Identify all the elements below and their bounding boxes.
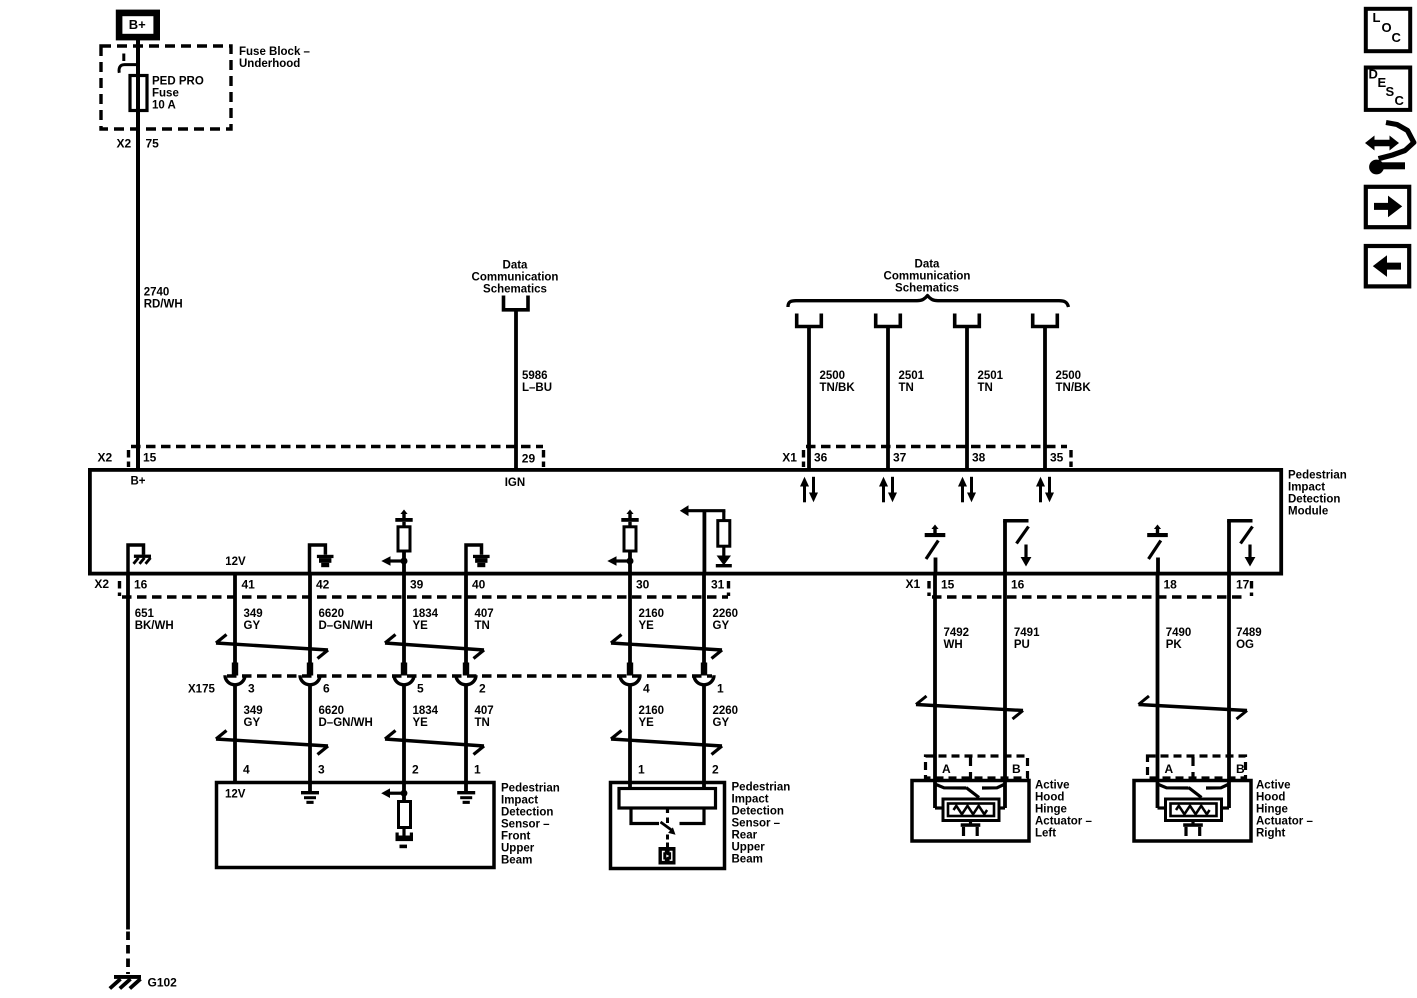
svg-text:Fuse: Fuse (152, 88, 179, 100)
svg-text:Hood: Hood (1256, 792, 1285, 804)
svg-text:WH: WH (944, 639, 963, 651)
svg-text:1834: 1834 (413, 608, 439, 620)
module internal bidirectional serial data arrows (803, 485, 806, 502)
svg-text:37: 37 (893, 451, 907, 465)
svg-text:35: 35 (1050, 451, 1064, 465)
svg-text:7490: 7490 (1166, 627, 1192, 639)
svg-text:42: 42 (316, 578, 330, 592)
svg-text:B: B (1012, 762, 1021, 776)
front sensor internal sense resistor with signal arrow (pin 2) (402, 781, 406, 802)
svg-text:Fuse Block –: Fuse Block – (239, 46, 311, 58)
svg-text:5: 5 (417, 682, 424, 696)
svg-text:Schematics: Schematics (895, 283, 959, 295)
wire 7492 WH: module to actuator left terminal A (933, 574, 937, 782)
svg-text:6620: 6620 (319, 608, 345, 620)
svg-text:Module: Module (1288, 506, 1328, 518)
actuator right squib shorting bar (1158, 780, 1230, 808)
module internal bidirectional serial data arrows (882, 485, 885, 502)
module internal ground (pin 40) (466, 545, 482, 574)
ground G102 chassis ground symbol (114, 975, 141, 979)
rear sensor internal pressure sensor element (659, 847, 676, 865)
actuator left connector dashed box with terminals A and B (926, 756, 1028, 778)
svg-text:Pedestrian: Pedestrian (732, 782, 791, 794)
module internal pull-up resistor with supply and signal arrow (pin 30) (626, 510, 633, 515)
twisted pair symbol (7492/7491) (916, 705, 1023, 711)
twisted pair symbol (1834/407 upper) (385, 643, 484, 650)
module internal ground (pin 42) (310, 545, 326, 574)
wire 7489 OG: module to actuator right terminal B (1227, 574, 1231, 782)
svg-text:Data: Data (915, 259, 941, 271)
wire 7491 PU: module to actuator left terminal B (1003, 574, 1007, 782)
twisted pair symbol (1834/407 lower) (385, 739, 484, 746)
svg-text:Active: Active (1035, 780, 1070, 792)
svg-text:17: 17 (1236, 578, 1250, 592)
wire 651 BK/WH: module pin 16 to ground G102 (126, 574, 130, 930)
svg-text:2: 2 (412, 763, 419, 777)
sidebar icon next arrow (1366, 187, 1409, 227)
svg-text:Data: Data (503, 260, 529, 272)
wire 6620 D–GN/WH: X175 to front sensor pin 3 (308, 685, 312, 783)
Pedestrian Impact Detection Sensor - Rear Upper Beam box (611, 783, 725, 869)
svg-text:PED PRO: PED PRO (152, 76, 204, 88)
sidebar icon LOC (1366, 9, 1410, 51)
wire 2160 YE: module to in-line connector pin 4 (628, 574, 632, 664)
svg-text:10 A: 10 A (152, 100, 176, 112)
svg-text:TN: TN (899, 382, 914, 394)
svg-text:2260: 2260 (713, 705, 739, 717)
actuator left igniter squib resistor (935, 806, 944, 809)
svg-text:L: L (1373, 10, 1381, 25)
svg-text:Upper: Upper (732, 842, 766, 854)
svg-text:TN: TN (475, 717, 490, 729)
Pedestrian Impact Detection Module box (90, 470, 1281, 574)
svg-text:7491: 7491 (1014, 627, 1040, 639)
wire 6620 D–GN/WH: module to X175 pin 6 (308, 574, 312, 664)
svg-text:GY: GY (244, 717, 261, 729)
svg-text:Detection: Detection (1288, 494, 1340, 506)
Active Hood Hinge Actuator - Left box (912, 781, 1029, 842)
front sensor internal ground (pin 1) (464, 781, 468, 791)
in-line connector terminal pin 1 (701, 663, 707, 676)
svg-text:RD/WH: RD/WH (144, 299, 183, 311)
svg-text:2: 2 (712, 763, 719, 777)
twisted pair symbol (349/6620 lower) (216, 739, 328, 746)
wire 407 TN: module to X175 pin 2 (464, 574, 468, 664)
module internal deployment high-side switch (pin X1-15) (931, 525, 938, 530)
svg-text:C: C (1395, 93, 1405, 108)
svg-text:7492: 7492 (944, 627, 970, 639)
off-page connector bracket (serial data wire 2500) (797, 314, 822, 327)
svg-text:Front: Front (501, 831, 531, 843)
svg-text:Detection: Detection (732, 806, 784, 818)
svg-text:TN: TN (475, 620, 490, 632)
rear sensor internal element legs (631, 808, 659, 824)
sidebar icon DESC (1366, 68, 1410, 110)
svg-text:Hinge: Hinge (1256, 804, 1288, 816)
svg-text:A: A (942, 762, 951, 776)
svg-text:B+: B+ (131, 475, 146, 487)
twisted pair symbol (349/6620 upper) (216, 643, 328, 650)
module internal resistor to ground with signal arrow (pin 31) (703, 511, 707, 574)
svg-text:36: 36 (814, 451, 828, 465)
svg-text:1834: 1834 (413, 705, 439, 717)
module internal bidirectional serial data arrows (961, 485, 964, 502)
svg-text:Hood: Hood (1035, 792, 1064, 804)
fuse block - underhood dashed box (101, 46, 231, 129)
wire 1834 YE: X175 to front sensor pin 2 (402, 685, 406, 783)
wire 2160 YE: connector to rear sensor pin 1 (628, 685, 632, 783)
svg-text:X2: X2 (94, 577, 109, 591)
in-line connector X175 dashed line (227, 674, 712, 677)
svg-text:1: 1 (474, 763, 481, 777)
svg-text:A: A (1165, 762, 1174, 776)
svg-text:Pedestrian: Pedestrian (1288, 470, 1347, 482)
off-page connector bracket (left data) (504, 296, 529, 310)
svg-text:Communication: Communication (884, 271, 971, 283)
module connector X1 bottom row (pins 15,16,18,17) (932, 595, 1246, 598)
actuator right connector dashed box with terminals A and B (1148, 756, 1246, 778)
svg-text:B: B (1236, 762, 1245, 776)
svg-text:15: 15 (941, 578, 955, 592)
wire 349 GY: X175 to front sensor pin 4 (233, 685, 237, 783)
module internal deployment low-side switch with ground arrow (pin X1-17) (1227, 521, 1231, 574)
svg-text:X1: X1 (782, 451, 797, 465)
svg-text:39: 39 (410, 578, 424, 592)
svg-text:2260: 2260 (713, 608, 739, 620)
wire 5986 L-BU: data link to module pin 29 (514, 310, 518, 470)
svg-text:Right: Right (1256, 828, 1286, 840)
svg-text:O: O (1382, 20, 1392, 35)
twisted pair symbol (7490/7489) (1139, 705, 1248, 711)
svg-text:7489: 7489 (1236, 627, 1262, 639)
svg-text:Beam: Beam (732, 854, 763, 866)
svg-text:TN/BK: TN/BK (1056, 382, 1092, 394)
svg-text:Schematics: Schematics (483, 284, 547, 296)
connector X175 terminal pin 2 (463, 663, 469, 676)
svg-text:349: 349 (244, 705, 263, 717)
Pedestrian Impact Detection Sensor - Front Upper Beam box (217, 783, 495, 868)
in-line connector terminal pin 4 (627, 663, 633, 676)
svg-text:PK: PK (1166, 639, 1183, 651)
brace over serial data wires (788, 296, 1069, 308)
svg-text:31: 31 (711, 578, 725, 592)
svg-text:Pedestrian: Pedestrian (501, 783, 560, 795)
svg-text:Detection: Detection (501, 807, 553, 819)
svg-text:C: C (1392, 30, 1402, 45)
svg-text:651: 651 (135, 608, 155, 620)
svg-text:5986: 5986 (522, 370, 548, 382)
svg-text:6: 6 (323, 682, 330, 696)
svg-text:X2: X2 (98, 450, 113, 464)
svg-text:3: 3 (318, 763, 325, 777)
svg-text:2160: 2160 (639, 705, 665, 717)
wire 407 TN: X175 to front sensor pin 1 (464, 685, 468, 783)
svg-text:YE: YE (639, 620, 655, 632)
svg-text:1: 1 (717, 682, 724, 696)
svg-text:4: 4 (243, 763, 250, 777)
svg-text:30: 30 (636, 578, 650, 592)
svg-text:Beam: Beam (501, 855, 532, 867)
wire 2501 TN: serial data to module X1 pin 38 (965, 327, 969, 471)
svg-text:Impact: Impact (1288, 482, 1325, 494)
twisted pair symbol (2160/2260 upper) (611, 643, 722, 650)
svg-text:6620: 6620 (319, 705, 345, 717)
wire 2260 GY: connector to rear sensor pin 2 (702, 685, 706, 783)
svg-text:2160: 2160 (639, 608, 665, 620)
svg-text:1: 1 (638, 763, 645, 777)
svg-text:16: 16 (134, 578, 148, 592)
sidebar icon previous arrow (1366, 246, 1409, 286)
B+ battery positive voltage symbol (119, 13, 157, 37)
actuator left pyrotechnic charge (969, 821, 972, 824)
svg-text:PU: PU (1014, 639, 1030, 651)
wire 1834 YE: module to X175 pin 5 (402, 574, 406, 664)
fuse PED PRO 10 A (130, 76, 147, 111)
svg-text:12V: 12V (225, 789, 246, 801)
connector X175 terminal pin 3 (232, 663, 238, 676)
svg-text:YE: YE (413, 717, 429, 729)
svg-text:407: 407 (475, 705, 494, 717)
svg-text:Actuator –: Actuator – (1035, 816, 1092, 828)
svg-text:Sensor –: Sensor – (732, 818, 781, 830)
svg-text:4: 4 (643, 682, 650, 696)
Active Hood Hinge Actuator - Right box (1134, 781, 1251, 842)
svg-text:2: 2 (479, 682, 486, 696)
module internal deployment high-side switch (pin X1-18) (1154, 525, 1161, 530)
actuator left squib shorting bar (935, 780, 1005, 808)
svg-text:D–GN/WH: D–GN/WH (319, 717, 373, 729)
svg-text:Impact: Impact (501, 795, 538, 807)
wire 7490 PK: module to actuator right terminal A (1156, 574, 1160, 782)
svg-text:TN/BK: TN/BK (820, 382, 856, 394)
svg-text:D: D (1369, 67, 1378, 82)
svg-text:2501: 2501 (899, 370, 925, 382)
wire 2260 GY: module to in-line connector pin 1 (702, 574, 706, 664)
connector X175 terminal pin 5 (401, 663, 407, 676)
module internal pull-up resistor with supply and signal arrow (pin 39) (400, 510, 407, 515)
svg-text:41: 41 (242, 578, 256, 592)
svg-text:75: 75 (146, 137, 160, 151)
module connector X2 top row (pins 15, 29) (131, 445, 543, 448)
svg-text:Underhood: Underhood (239, 58, 300, 70)
svg-text:BK/WH: BK/WH (135, 620, 174, 632)
rear sensor internal variable link with arrow (666, 808, 669, 813)
svg-text:29: 29 (522, 452, 536, 466)
svg-text:L–BU: L–BU (522, 382, 552, 394)
svg-text:Active: Active (1256, 780, 1291, 792)
twisted pair symbol (2160/2260 lower) (611, 739, 722, 746)
front sensor internal ground (pin 3) (308, 781, 312, 791)
svg-text:Actuator –: Actuator – (1256, 816, 1313, 828)
svg-text:15: 15 (143, 451, 157, 465)
module internal bidirectional serial data arrows (1039, 485, 1042, 502)
svg-text:X2: X2 (117, 137, 132, 151)
off-page connector bracket (serial data wire 2500) (1033, 314, 1058, 327)
svg-text:IGN: IGN (505, 477, 525, 489)
svg-text:YE: YE (413, 620, 429, 632)
svg-text:2500: 2500 (820, 370, 846, 382)
off-page connector bracket (serial data wire 2501) (876, 314, 901, 327)
svg-text:16: 16 (1011, 578, 1025, 592)
module internal chassis ground (pin X2-16) (128, 545, 144, 574)
svg-text:X175: X175 (188, 684, 215, 696)
svg-text:40: 40 (472, 578, 486, 592)
svg-text:S: S (1386, 84, 1395, 99)
wire 349 GY: module to X175 pin 3 (233, 574, 237, 664)
svg-text:YE: YE (639, 717, 655, 729)
svg-text:2501: 2501 (978, 370, 1004, 382)
wire 2500 TN/BK: serial data to module X1 pin 36 (807, 327, 811, 471)
module connector X2 bottom row (pins 16,41,42,39,40,30,31) (122, 595, 728, 598)
svg-text:349: 349 (244, 608, 263, 620)
actuator right igniter squib resistor (1158, 806, 1167, 809)
svg-text:G102: G102 (148, 975, 178, 989)
svg-text:407: 407 (475, 608, 494, 620)
svg-text:18: 18 (1164, 578, 1178, 592)
connector X175 terminal pin 6 (307, 663, 313, 676)
svg-text:Rear: Rear (732, 830, 758, 842)
module internal deployment low-side switch with ground arrow (pin X1-16) (1003, 521, 1007, 574)
svg-text:TN: TN (978, 382, 993, 394)
svg-text:38: 38 (972, 451, 986, 465)
sidebar icon schematic navigation (1365, 136, 1399, 151)
svg-text:Upper: Upper (501, 843, 535, 855)
svg-text:X1: X1 (906, 577, 921, 591)
svg-text:Impact: Impact (732, 794, 769, 806)
svg-text:12V: 12V (225, 556, 246, 568)
svg-text:B+: B+ (129, 17, 146, 32)
svg-text:2500: 2500 (1056, 370, 1082, 382)
svg-text:Left: Left (1035, 828, 1056, 840)
svg-text:2740: 2740 (144, 287, 170, 299)
svg-text:OG: OG (1236, 639, 1254, 651)
svg-text:Sensor –: Sensor – (501, 819, 550, 831)
svg-text:GY: GY (244, 620, 261, 632)
svg-text:Communication: Communication (472, 272, 559, 284)
module connector X1 top row (pins 36, 37, 38, 35) (806, 445, 1067, 448)
wire 2501 TN: serial data to module X1 pin 37 (886, 327, 890, 471)
off-page connector bracket (serial data wire 2501) (955, 314, 980, 327)
svg-text:GY: GY (713, 620, 730, 632)
wire 2500 TN/BK: serial data to module X1 pin 35 (1043, 327, 1047, 471)
wire 2740 RD/WH: B+ through PED PRO fuse to module X2 pin 15 (136, 40, 140, 470)
svg-text:D–GN/WH: D–GN/WH (319, 620, 373, 632)
svg-text:3: 3 (248, 682, 255, 696)
fuse clip connector (122, 54, 125, 62)
svg-text:Hinge: Hinge (1035, 804, 1067, 816)
rear sensor internal sensing element bar (628, 781, 632, 789)
svg-text:GY: GY (713, 717, 730, 729)
actuator right pyrotechnic charge (1191, 821, 1194, 824)
